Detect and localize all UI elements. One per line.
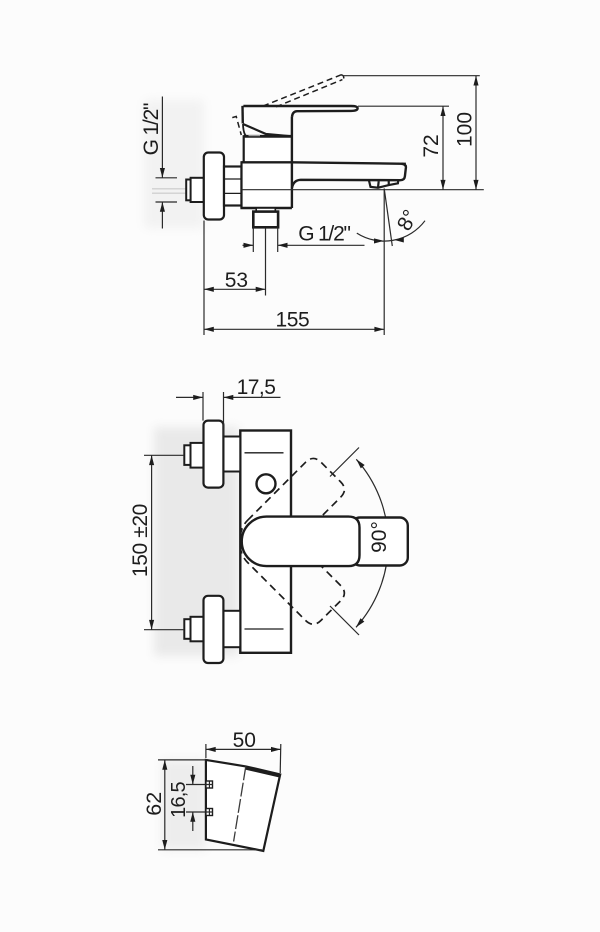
svg-text:150 ±20: 150 ±20 — [129, 504, 152, 577]
svg-text:155: 155 — [275, 309, 309, 332]
svg-text:53: 53 — [225, 269, 248, 292]
svg-text:62: 62 — [142, 792, 166, 816]
svg-text:50: 50 — [233, 729, 256, 752]
svg-text:90°: 90° — [368, 521, 391, 553]
svg-text:G 1/2": G 1/2" — [140, 103, 163, 155]
svg-text:100: 100 — [454, 112, 477, 147]
svg-text:72: 72 — [420, 134, 443, 157]
svg-text:16,5: 16,5 — [168, 781, 190, 817]
svg-text:G 1/2": G 1/2" — [298, 223, 350, 246]
svg-text:17,5: 17,5 — [237, 376, 276, 399]
